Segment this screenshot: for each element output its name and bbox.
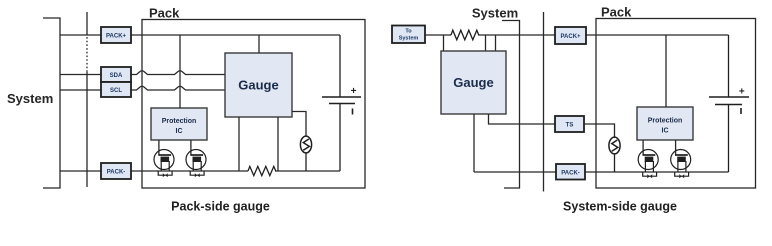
diode body D3 (643, 172, 657, 178)
wire kelvin sense right (277, 117, 279, 171)
svg-text:System: System (7, 91, 53, 106)
svg-text:IC: IC (662, 128, 669, 135)
thermistor (left) (300, 136, 311, 171)
pack boundary (142, 20, 365, 189)
diode body D4 (675, 172, 689, 178)
terminal PACK- (101, 163, 131, 179)
wire protection IC supply (179, 35, 181, 108)
svg-text:Pack: Pack (601, 5, 632, 20)
wire gate Q2 (190, 140, 192, 155)
system boundary (partial box) (502, 21, 520, 189)
wire TS to thermistor (584, 124, 615, 137)
terminal PACK+ (101, 27, 131, 43)
svg-text:PACK-: PACK- (561, 171, 580, 177)
node Pack label (right) (601, 5, 632, 20)
wire voltage tap (495, 35, 497, 51)
diode body D1 (158, 171, 172, 177)
connector bus line (86, 12, 88, 187)
svg-text:System: System (399, 36, 419, 42)
svg-text:+: + (739, 87, 745, 98)
svg-text:PACK+: PACK+ (106, 34, 127, 40)
wire kelvin sense right (right diag) (485, 35, 487, 51)
gauge U2 (441, 51, 506, 114)
terminal SCL (101, 82, 131, 97)
wire SDA (with crossover hops) (60, 71, 225, 75)
svg-text:SDA: SDA (110, 73, 123, 79)
caption Pack-side gauge (171, 200, 270, 214)
connector bus line (right) (543, 12, 545, 192)
svg-text:To: To (405, 29, 412, 35)
svg-text:+: + (351, 86, 357, 97)
resistor sense (right) (451, 30, 479, 40)
wire gate Q1 (158, 140, 160, 155)
svg-text:TS: TS (566, 123, 574, 129)
terminal TS (555, 116, 584, 132)
gauge U1 (225, 53, 292, 117)
wire gauge TS output (292, 112, 306, 137)
transistor Q1 (154, 150, 174, 172)
pack boundary (right) (596, 19, 756, 189)
svg-text:Pack-side gauge: Pack-side gauge (171, 200, 270, 214)
wire PACK+ rail (60, 34, 340, 36)
wire protection IC supply (right) (665, 35, 667, 107)
terminal PACK+ (right) (555, 27, 586, 44)
terminal PACK- (right) (556, 164, 585, 180)
wire gauge top supply (258, 35, 260, 53)
battery (left) (322, 35, 361, 171)
thermistor (right) (609, 137, 620, 172)
terminal SDA (101, 67, 131, 82)
svg-text:Gauge: Gauge (453, 75, 493, 90)
wire PACK- rail (right) (474, 171, 729, 173)
wire gauge TS (right diag) (489, 114, 556, 124)
wire kelvin sense left (right diag) (443, 35, 445, 51)
protection IC (right) (637, 107, 693, 140)
svg-text:System-side gauge: System-side gauge (563, 200, 677, 214)
transistor Q2 (186, 150, 206, 172)
transistor Q3 (638, 150, 658, 173)
svg-text:Pack: Pack (149, 6, 180, 21)
svg-text:Gauge: Gauge (238, 78, 278, 93)
node System (top label) (472, 6, 518, 21)
diode body D2 (190, 171, 204, 177)
node System (left) (7, 91, 53, 106)
svg-text:SCL: SCL (110, 88, 122, 94)
svg-text:PACK+: PACK+ (560, 34, 581, 40)
wire gate Q4 (675, 140, 677, 155)
transistor Q4 (671, 150, 691, 173)
wire gate Q3 (642, 140, 644, 155)
battery (right) (709, 35, 749, 172)
system boundary (partial box) (43, 18, 60, 188)
wire main PACK+ rail (right) (425, 34, 729, 36)
caption System-side gauge (563, 200, 677, 214)
wire kelvin sense left (238, 117, 240, 171)
wire SCL (with crossover hops) (60, 86, 225, 90)
wire PACK- rail (60, 170, 340, 172)
svg-text:PACK-: PACK- (107, 170, 126, 176)
svg-text:System: System (472, 6, 518, 21)
terminal To System (392, 26, 425, 44)
protection IC (151, 108, 207, 140)
node Pack label (149, 6, 180, 21)
svg-text:Protection: Protection (162, 118, 197, 125)
wire gauge PACK- (right diag) (473, 114, 475, 172)
resistor sense (left) (248, 166, 276, 175)
svg-text:IC: IC (176, 128, 183, 135)
svg-text:Protection: Protection (648, 118, 683, 125)
